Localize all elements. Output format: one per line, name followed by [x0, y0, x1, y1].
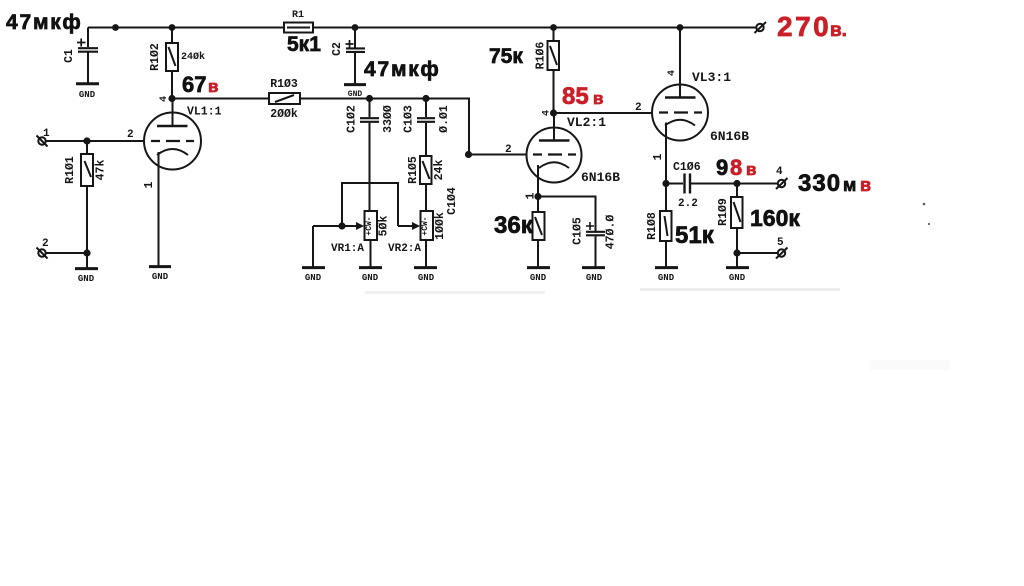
svg-text:51к: 51к: [675, 222, 715, 249]
wire R103 to corner: [300, 99, 469, 155]
svg-text:5Øk: 5Øk: [378, 216, 391, 237]
svg-text:47k: 47k: [95, 160, 108, 181]
faint scan smudge: [365, 291, 545, 294]
terminal 5: [776, 237, 788, 259]
triode VL2:1: [525, 113, 582, 199]
speck artifact: [928, 223, 930, 225]
wire wiper to gnd left: [313, 225, 342, 227]
svg-text:GND: GND: [729, 273, 746, 283]
svg-text:C1Ø2: C1Ø2: [346, 105, 359, 133]
capacitor C102 3300: [346, 99, 396, 212]
svg-text:4: 4: [159, 96, 170, 102]
svg-text:47мкф: 47мкф: [6, 11, 83, 34]
svg-text:Ø.Ø1: Ø.Ø1: [438, 105, 451, 133]
node R109 bottom: [733, 249, 740, 256]
svg-text:R1: R1: [292, 10, 304, 21]
wire to VL2 grid: [469, 154, 528, 156]
svg-text:2: 2: [635, 102, 642, 114]
resistor R105 24k: [407, 156, 446, 211]
svg-text:R1Ø5: R1Ø5: [407, 156, 420, 184]
svg-text:2: 2: [505, 144, 512, 156]
terminal 1: [37, 128, 51, 147]
ground R109: [726, 268, 749, 283]
svg-text:GND: GND: [79, 90, 96, 100]
ground R108: [655, 268, 678, 283]
svg-text:24Øk: 24Øk: [181, 51, 205, 63]
resistor R106: [535, 28, 560, 114]
svg-text:R1Ø6: R1Ø6: [535, 42, 548, 70]
capacitor C2: [331, 28, 365, 85]
svg-text:C1Ø4: C1Ø4: [446, 187, 459, 215]
ground VL1 cathode: [149, 267, 171, 282]
svg-text:1: 1: [43, 128, 50, 140]
svg-text:2: 2: [42, 238, 49, 250]
svg-text:R1Ø2: R1Ø2: [149, 43, 162, 71]
svg-text:33ØØ: 33ØØ: [382, 105, 395, 133]
node R101 top: [83, 137, 90, 144]
svg-text:м: м: [843, 175, 856, 195]
svg-text:8: 8: [730, 155, 742, 180]
node grid feed VL2: [465, 151, 472, 158]
wire R109 to gnd: [736, 253, 738, 267]
resistor R101 47k: [64, 141, 108, 253]
svg-text:R1Ø8: R1Ø8: [646, 212, 659, 240]
potentiometer VR2:A 100k: [388, 211, 447, 267]
svg-text:36к: 36к: [494, 212, 534, 239]
svg-text:5к1: 5к1: [287, 33, 321, 56]
resistor 36к: [533, 197, 545, 268]
svg-text:C1Ø6: C1Ø6: [673, 161, 701, 174]
ground C105: [582, 268, 605, 283]
node C102 top: [366, 95, 373, 102]
resistor R1 5к1: [284, 10, 321, 56]
svg-text:47Ø.Ø: 47Ø.Ø: [605, 215, 618, 250]
wire VL2 anode to VL3 grid: [554, 112, 653, 114]
resistor R109 160к: [717, 184, 743, 254]
svg-text:GND: GND: [78, 274, 95, 284]
svg-text:GND: GND: [348, 90, 363, 99]
svg-text:GND: GND: [305, 273, 322, 283]
svg-text:160к: 160к: [750, 205, 800, 231]
node VL3 cathode: [662, 180, 669, 187]
wire terminal2 to R101 bottom: [45, 252, 87, 254]
svg-text:4: 4: [542, 110, 553, 116]
svg-text:C2: C2: [331, 42, 344, 56]
svg-text:2ØØk: 2ØØk: [270, 108, 298, 121]
svg-text:9: 9: [716, 155, 728, 180]
svg-text:в.: в.: [830, 20, 847, 41]
triode VL3:1: [652, 28, 708, 184]
ground VR1: [359, 268, 382, 283]
svg-text:1: 1: [652, 153, 665, 160]
triode VL1:1: [143, 99, 201, 267]
ground C2: [344, 85, 366, 99]
wire input to VL1 grid: [45, 140, 144, 142]
capacitor C105 470.0: [572, 215, 618, 267]
resistor R102 240k: [149, 28, 205, 99]
svg-text:4: 4: [776, 166, 783, 178]
svg-text:24k: 24k: [433, 160, 446, 181]
terminal 270в: [755, 22, 767, 33]
resistor R108 51к: [646, 184, 672, 268]
svg-text:2.2: 2.2: [678, 198, 698, 210]
svg-text:VR1:A: VR1:A: [331, 243, 364, 255]
svg-text:C1Ø3: C1Ø3: [403, 105, 416, 133]
svg-text:+CW-: +CW-: [421, 216, 430, 235]
svg-text:в: в: [746, 160, 756, 179]
capacitor C106 2.2: [666, 161, 737, 210]
svg-text:+CW-: +CW-: [365, 216, 374, 235]
ground 36к: [527, 268, 550, 283]
svg-text:270: 270: [777, 11, 831, 42]
speck artifact: [923, 203, 926, 206]
svg-text:GND: GND: [152, 272, 169, 282]
svg-text:330: 330: [798, 170, 841, 197]
svg-text:R1Ø3: R1Ø3: [270, 78, 298, 91]
wire to terminal 4: [737, 183, 777, 185]
wire anode row to R103: [172, 98, 269, 100]
node R106 top: [550, 24, 557, 31]
faint scan smudge: [640, 288, 840, 291]
svg-text:в: в: [593, 89, 603, 108]
svg-text:GND: GND: [362, 273, 379, 283]
svg-text:GND: GND: [530, 273, 547, 283]
capacitor C1: [63, 28, 98, 84]
svg-text:4: 4: [667, 70, 678, 76]
svg-text:6N16B: 6N16B: [581, 170, 620, 185]
node VL3 anode top: [677, 24, 684, 31]
svg-text:1: 1: [143, 181, 156, 188]
wire top rail right of R1: [313, 27, 757, 29]
faint scan smudge: [870, 360, 950, 370]
svg-text:в: в: [860, 175, 871, 195]
wire wiper link top: [342, 183, 398, 226]
resistor R103 200k: [269, 78, 300, 121]
terminal 2: [37, 238, 49, 259]
svg-text:VR2:A: VR2:A: [388, 243, 421, 255]
node output: [733, 180, 740, 187]
svg-text:GND: GND: [418, 273, 435, 283]
wire to terminal 5: [737, 252, 777, 254]
svg-text:C1: C1: [63, 49, 76, 63]
svg-text:85: 85: [562, 83, 589, 110]
svg-text:67: 67: [182, 72, 206, 97]
svg-text:R1Ø9: R1Ø9: [717, 198, 730, 226]
ground R101: [75, 269, 98, 284]
svg-text:R1Ø1: R1Ø1: [64, 156, 77, 184]
node VL2 cathode: [534, 193, 541, 200]
node R102 top: [169, 24, 176, 31]
node VL2 anode: [550, 109, 557, 116]
svg-text:6N16B: 6N16B: [710, 129, 749, 144]
svg-text:47мкф: 47мкф: [364, 58, 441, 81]
svg-text:VL3:1: VL3:1: [692, 70, 731, 85]
ground C1: [76, 84, 99, 100]
svg-text:GND: GND: [658, 273, 675, 283]
node on rail: [112, 24, 119, 31]
wire cathode to C105: [538, 197, 596, 232]
svg-text:1ØØk: 1ØØk: [434, 212, 447, 240]
svg-text:VL2:1: VL2:1: [567, 115, 606, 130]
svg-text:5: 5: [777, 237, 784, 249]
wire top supply rail: [88, 27, 284, 29]
node R101 bottom: [83, 249, 90, 256]
ground left: [302, 268, 325, 283]
svg-text:VL1:1: VL1:1: [187, 106, 222, 119]
node C2 top: [352, 24, 359, 31]
svg-text:C1Ø5: C1Ø5: [572, 217, 585, 245]
svg-text:2: 2: [127, 129, 134, 141]
svg-text:в: в: [208, 77, 218, 96]
capacitor C103 0.01: [403, 99, 452, 157]
terminal 4: [776, 166, 788, 189]
node C103 top: [422, 95, 429, 102]
ground VR2: [414, 268, 437, 283]
svg-text:75к: 75к: [489, 45, 523, 68]
svg-text:GND: GND: [586, 273, 603, 283]
potentiometer VR1:A 50k: [331, 211, 391, 267]
node VL1 anode junction: [168, 95, 175, 102]
node VR1 wiper: [338, 222, 345, 229]
